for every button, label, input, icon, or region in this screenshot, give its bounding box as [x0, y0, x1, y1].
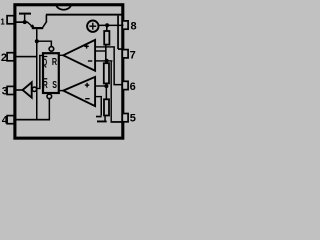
- wire pin 4: [16, 119, 50, 121]
- pin 1 box: [7, 16, 14, 24]
- svg-text:8: 8: [131, 20, 137, 32]
- wire to pin 5: [111, 121, 123, 123]
- package notch: [56, 6, 71, 10]
- node B (R2-R3 junction): [104, 84, 108, 88]
- minus sign comparator 2: [85, 98, 89, 99]
- pin 3 box: [7, 86, 14, 94]
- inverter bubble: [32, 87, 36, 91]
- svg-text:R: R: [43, 80, 49, 91]
- transistor Q1 collector: [43, 22, 47, 28]
- node A (R1-R2 junction): [105, 59, 109, 63]
- minus sign comparator 1: [88, 60, 92, 61]
- VCC supply symbol (circled plus): [87, 21, 98, 32]
- wire node to R1: [106, 26, 108, 30]
- wire pin 2: [16, 56, 36, 58]
- resistor R1: [104, 31, 109, 45]
- wire pin 3: [16, 89, 23, 91]
- ground bar small: [96, 116, 102, 118]
- flip-flop U1 box: [43, 53, 59, 93]
- wire comparator2 - input: [95, 96, 102, 97]
- wire comparator 2 output: [59, 90, 63, 91]
- pin 6 box: [122, 81, 128, 89]
- node VCC / R1: [105, 23, 109, 27]
- wire reference tee: [95, 50, 106, 51]
- wire pin1 to transistor emitter: [16, 21, 28, 23]
- wire discharge vertical: [117, 16, 119, 49]
- wire comparator 1 output: [59, 55, 63, 56]
- flip-flop label R-bar: [43, 78, 47, 79]
- wire base node to FF top bubble: [36, 41, 52, 42]
- wire trigger vertical: [36, 42, 38, 119]
- wire comparator2 + input to node B: [95, 85, 106, 86]
- svg-text:7: 7: [130, 49, 136, 61]
- svg-text:6: 6: [130, 81, 136, 93]
- transistor Q1 emitter (arrow): [27, 22, 34, 28]
- wire CTRL vertical: [111, 62, 112, 122]
- wire comparator - input to node A and CTRL: [95, 60, 112, 61]
- op-amp trigger comparator: [63, 77, 95, 106]
- FF bottom bubble: [47, 94, 52, 99]
- svg-text:S: S: [52, 80, 57, 91]
- output inverter triangle: [23, 82, 32, 97]
- wire to pin 7: [118, 48, 123, 50]
- node at ground stem: [23, 20, 27, 24]
- node base/trigger: [35, 39, 39, 43]
- wire R1 to node A: [105, 45, 107, 60]
- FF top bubble: [49, 47, 54, 52]
- pin 7 box: [122, 50, 128, 58]
- wire collector rail to discharge drop: [46, 14, 123, 16]
- svg-text:Q: Q: [42, 58, 47, 69]
- wire FF Q-bar stub: [39, 55, 43, 56]
- resistor R3: [104, 99, 109, 115]
- wire comparator + input to THRES line: [95, 46, 115, 47]
- wire R3 to ground: [104, 116, 106, 121]
- svg-text:5: 5: [130, 112, 136, 124]
- pin 4 box: [7, 116, 14, 124]
- wire bottom bubble to pin4 wire: [49, 99, 51, 120]
- pin 5 box: [122, 114, 128, 122]
- transistor Q1 base lead: [36, 29, 38, 41]
- wire R2 to R3: [106, 83, 108, 98]
- svg-text:1: 1: [0, 18, 5, 27]
- svg-text:2: 2: [1, 52, 7, 64]
- svg-text:4: 4: [2, 115, 9, 127]
- wire Q-bar vertical to inverter: [39, 55, 41, 89]
- resistor R2: [104, 63, 109, 83]
- wire to pin 6: [113, 84, 123, 86]
- ground symbol at pin 1: [19, 13, 31, 15]
- ground bar: [97, 121, 107, 123]
- wire THRES vertical: [113, 48, 115, 85]
- svg-text:R: R: [52, 57, 58, 68]
- op-amp threshold comparator: [63, 40, 95, 71]
- transistor Q1 base bar: [32, 27, 43, 29]
- pin 2 box: [7, 53, 14, 61]
- IC package outline: [15, 5, 123, 138]
- plus sign comparator 1: [84, 46, 89, 47]
- pin 8 box: [122, 21, 128, 29]
- plus sign comparator 2: [85, 84, 90, 85]
- wire - input drop: [101, 97, 103, 115]
- svg-text:3: 3: [2, 85, 8, 97]
- wire VCC to pin 8: [98, 25, 123, 27]
- flip-flop label Q-bar: [43, 56, 47, 57]
- wire inverter input: [35, 88, 41, 89]
